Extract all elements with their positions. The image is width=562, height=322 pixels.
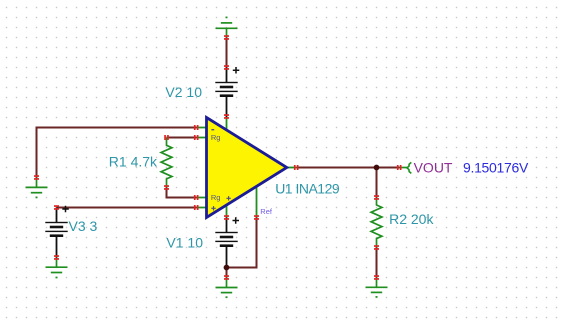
svg-text:Rg: Rg: [211, 133, 221, 142]
svg-text:R1 4.7k: R1 4.7k: [109, 153, 158, 169]
pin 3 (Rg bottom): [197, 197, 209, 199]
x at pin2 / wire W2: [194, 135, 196, 140]
VOUT probe brace: [407, 162, 411, 173]
svg-text:V1 10: V1 10: [166, 234, 203, 250]
plus label pin4: [211, 206, 215, 210]
plus label pin3: [226, 196, 230, 200]
x at pin4 / wire W4: [194, 205, 196, 210]
wire W2: R1 top to Rg pin: [167, 137, 197, 139]
plus sign V3: [62, 206, 69, 213]
svg-text:V2 10: V2 10: [165, 84, 202, 100]
wire W8: R2 bottom to ground: [376, 248, 378, 278]
x at V3 top terminal: [54, 205, 59, 207]
wire W7: junction down to R2 top: [376, 168, 378, 198]
ground GND4 under V1 junction: [216, 278, 238, 298]
svg-text:9.150176V: 9.150176V: [463, 159, 529, 175]
wire W9: V1 bottom junction to mid ground: [226, 268, 228, 278]
x at pin1 / wire W1: [194, 125, 196, 130]
svg-text:R2 20k: R2 20k: [389, 211, 434, 227]
pin Ref: [256, 186, 258, 218]
connection x-marks (red): [34, 35, 402, 280]
plus sign V1: [233, 217, 240, 224]
junction dot at V1 bottom node: [224, 265, 230, 271]
ground GND5 under R2: [366, 278, 388, 297]
wire W10: V1 bottom junction to Ref pin: [227, 218, 257, 268]
x at V2 top terminal: [224, 65, 229, 67]
pin 1 (top minus): [197, 127, 209, 129]
wire W4: V3 plus terminal to +IN pin: [57, 207, 197, 209]
x at mid ground pin: [224, 275, 229, 277]
svg-text:Rg: Rg: [211, 193, 221, 202]
pin V+ top supply: [226, 117, 228, 131]
op-amp U1 pin stubs: [197, 117, 297, 218]
svg-text:V3 3: V3 3: [69, 218, 98, 234]
battery V1: [215, 217, 239, 267]
wire W1: left vertical + top horizontal to pin 1: [37, 128, 197, 178]
x at Ref pin / wire W10: [254, 215, 259, 217]
minus label pin1: [211, 129, 214, 130]
x at V2 bottom / V+ pin: [224, 114, 229, 116]
wire W6: output wire to VOUT: [297, 167, 400, 169]
svg-text:U1 INA129: U1 INA129: [275, 181, 340, 197]
svg-text:Ref: Ref: [260, 207, 273, 216]
x at R1 top terminal: [164, 135, 166, 140]
x at V1 top / V- pin: [224, 215, 229, 217]
op-amp U1 body: [207, 118, 287, 218]
ground GND1 top (inverted): [216, 17, 238, 37]
op-amp U1 inner pin labels: [211, 129, 231, 211]
x at pin3 / wire W3: [194, 195, 196, 200]
ground GND3 under V3: [46, 258, 68, 278]
ground GND2 left: [26, 178, 48, 198]
x at VOUT probe / wire W6: [397, 165, 399, 170]
x at V3 bottom / ground: [54, 255, 59, 257]
resistor R1: [161, 138, 172, 188]
wire W5: top ground to V2: [226, 38, 228, 68]
svg-text:VOUT: VOUT: [414, 160, 453, 176]
battery V3: [45, 206, 69, 258]
x at R1 bottom terminal: [164, 185, 169, 187]
pin output: [285, 167, 297, 169]
VOUT probe lead: [400, 167, 407, 169]
pin V- bottom supply: [226, 204, 228, 218]
junction dot at output node: [374, 165, 380, 171]
x at top ground / wire: [224, 35, 229, 37]
battery V2: [215, 67, 239, 117]
resistor R2: [371, 198, 382, 248]
x at left ground / wire W1: [34, 175, 39, 177]
plus sign V2: [233, 67, 240, 74]
pin 2 (Rg top): [197, 137, 209, 139]
pin 4 (plus input): [197, 207, 209, 209]
x at R2 ground pin: [374, 275, 379, 277]
wire W3: R1 bottom to Rg+ pin: [167, 188, 197, 198]
x at R2 top terminal: [374, 195, 379, 197]
x at output pin / wire W6: [294, 165, 296, 170]
x at R2 bottom terminal: [374, 245, 379, 247]
